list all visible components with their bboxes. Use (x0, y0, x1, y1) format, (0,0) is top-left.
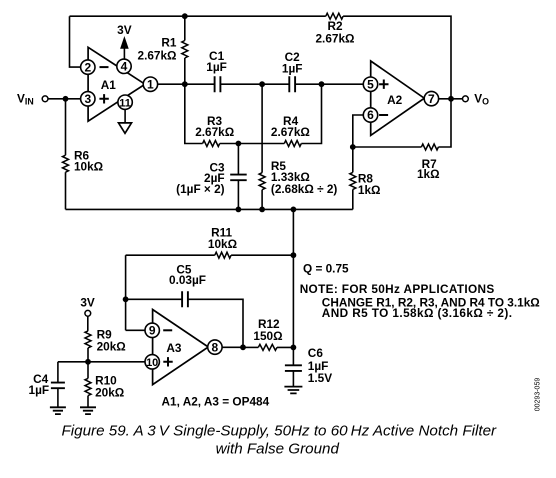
node R12/C6 junction (291, 345, 297, 351)
svg-text:NOTE: FOR 50Hz APPLICATIONS: NOTE: FOR 50Hz APPLICATIONS (300, 282, 495, 296)
wire to A3 pin 9 (126, 329, 145, 331)
svg-text:3V: 3V (117, 23, 132, 37)
op-amp A2 (363, 61, 438, 135)
svg-text:2.67kΩ: 2.67kΩ (316, 31, 355, 45)
svg-text:1kΩ: 1kΩ (358, 183, 381, 197)
svg-text:Figure 59. A 3 V Single-Supply: Figure 59. A 3 V Single-Supply, 50Hz to … (61, 423, 497, 440)
ground below C6 (284, 387, 302, 394)
svg-text:5: 5 (367, 77, 374, 91)
wire A3 inverting branch riser (125, 255, 127, 330)
svg-text:Q = 0.75: Q = 0.75 (303, 261, 349, 275)
svg-text:2: 2 (84, 60, 91, 74)
resistor R4 (271, 114, 310, 146)
resistor R7 (353, 99, 451, 181)
svg-text:1µF: 1µF (282, 61, 303, 75)
node 3V supply for A3 bias (80, 296, 95, 317)
svg-text:4: 4 (121, 60, 128, 74)
node A1 output / R1 bottom junction (158, 81, 215, 87)
svg-text:00293-059: 00293-059 (535, 378, 542, 412)
svg-text:11: 11 (119, 97, 131, 109)
svg-text:A3: A3 (166, 341, 182, 355)
svg-text:3V: 3V (80, 296, 95, 310)
node VIN input (17, 91, 81, 106)
resistor R5 (259, 84, 337, 209)
wire A1 pin 2 feedback riser (70, 16, 82, 67)
svg-text:A1: A1 (101, 78, 117, 92)
resistor R2 (316, 13, 355, 45)
svg-text:10: 10 (146, 357, 158, 369)
svg-text:1µF: 1µF (206, 60, 227, 74)
resistor R12 (243, 317, 293, 351)
resistor R11 (126, 225, 294, 258)
resistor R8 (350, 147, 381, 209)
svg-text:1kΩ: 1kΩ (417, 167, 440, 181)
svg-text:0.03µF: 0.03µF (169, 273, 206, 287)
op-amp A3 (145, 310, 222, 385)
ground below R10 (80, 407, 96, 414)
wire A3 output (222, 344, 246, 350)
svg-text:C6: C6 (308, 346, 324, 360)
svg-text:A2: A2 (387, 93, 403, 107)
svg-text:20kΩ: 20kΩ (97, 339, 126, 353)
node C2 / R4 riser junction (319, 81, 364, 87)
resistor R1 (138, 13, 188, 84)
svg-text:2.67kΩ: 2.67kΩ (271, 125, 310, 139)
ground below C4 (50, 407, 66, 414)
resistor R9 (85, 316, 126, 362)
svg-text:2.67kΩ: 2.67kΩ (138, 49, 177, 63)
svg-text:(1µF × 2): (1µF × 2) (176, 182, 224, 196)
wire twin-T lower arm (R3/R4 risers) (185, 84, 322, 143)
caption figure title (61, 423, 497, 458)
op-amp A1 (81, 47, 158, 121)
3V supply arrow at A1 pin 4 (117, 23, 132, 59)
capacitor C6 (285, 346, 332, 387)
svg-text:20kΩ: 20kΩ (95, 385, 124, 399)
svg-text:1: 1 (147, 77, 154, 91)
wire A2 pin 6 feedback (350, 115, 363, 150)
resistor R10 (85, 362, 124, 408)
svg-text:150Ω: 150Ω (253, 329, 282, 343)
wire A2 output to node (439, 98, 463, 100)
node C1/C2 midpoint (259, 81, 265, 87)
node R3/R4 midpoint (236, 141, 242, 147)
svg-text:R1: R1 (161, 36, 177, 50)
svg-text:2.67kΩ: 2.67kΩ (195, 125, 234, 139)
svg-text:with False Ground: with False Ground (216, 441, 340, 458)
node C5 tap (123, 296, 129, 302)
capacitor C4 (29, 362, 65, 408)
capacitor C3 (176, 144, 247, 210)
node VO output (448, 91, 489, 106)
svg-text:3: 3 (84, 92, 91, 106)
resistor R6 (63, 99, 104, 210)
svg-text:7: 7 (428, 92, 435, 106)
resistor R3 (195, 114, 234, 146)
wire top rail right + right-side drop to output node (343, 16, 451, 99)
wire bottom false-ground rail (66, 207, 353, 213)
capacitor C1 (206, 49, 262, 92)
capacitor C2 (262, 50, 321, 92)
wire riser rail to R11/R12 node (291, 209, 297, 347)
capacitor C5 (126, 262, 243, 347)
svg-text:6: 6 (367, 108, 374, 122)
svg-text:8: 8 (212, 340, 219, 354)
svg-text:9: 9 (149, 324, 156, 338)
svg-text:1µF: 1µF (29, 383, 50, 397)
note 50Hz applications (300, 282, 540, 320)
svg-text:AND R5 TO 1.58kΩ (3.16kΩ ÷ 2).: AND R5 TO 1.58kΩ (3.16kΩ ÷ 2). (322, 306, 513, 320)
svg-text:(2.68kΩ ÷ 2): (2.68kΩ ÷ 2) (271, 182, 337, 196)
svg-text:10kΩ: 10kΩ (208, 237, 237, 251)
svg-text:A1, A2, A3 = OP484: A1, A2, A3 = OP484 (162, 394, 270, 408)
svg-text:1.5V: 1.5V (308, 371, 332, 385)
false-ground symbol at A1 pin 11 (119, 109, 132, 133)
node R9/R10/C4 bias junction + wire to A3 pin 10 (58, 359, 145, 365)
wire top rail (A1 pin 2 node to R2) (70, 15, 326, 17)
svg-text:10kΩ: 10kΩ (74, 160, 103, 174)
